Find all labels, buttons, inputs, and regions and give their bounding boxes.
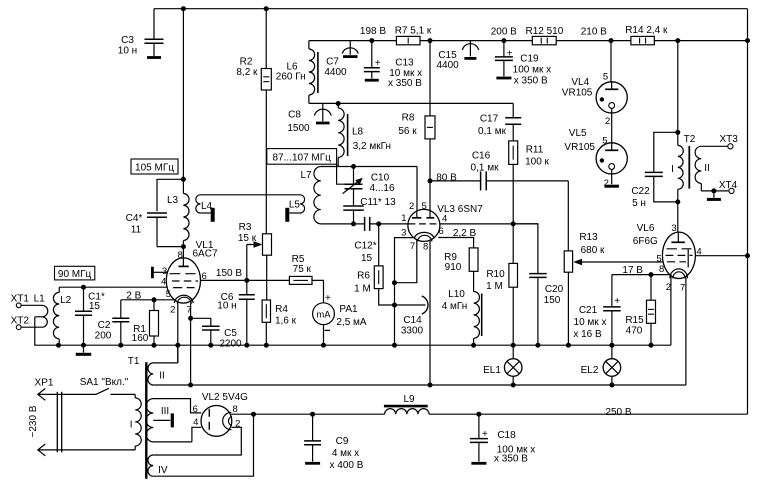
svg-text:VR105: VR105	[562, 88, 593, 99]
svg-text:C7: C7	[326, 57, 339, 68]
svg-text:1,6 к: 1,6 к	[275, 315, 297, 326]
svg-text:6AC7: 6AC7	[192, 248, 217, 259]
svg-text:15 к: 15 к	[238, 233, 257, 244]
svg-text:3: 3	[671, 223, 676, 234]
svg-text:4 мГн: 4 мГн	[442, 301, 468, 312]
svg-text:R8: R8	[402, 113, 415, 124]
svg-text:250 В: 250 В	[605, 407, 631, 418]
svg-text:III: III	[161, 406, 169, 417]
svg-text:L2: L2	[60, 295, 72, 306]
svg-text:90 МГц: 90 МГц	[58, 269, 92, 280]
svg-text:R4: R4	[275, 304, 288, 315]
svg-text:VL4: VL4	[571, 77, 589, 88]
svg-text:VL2 5V4G: VL2 5V4G	[202, 392, 248, 403]
svg-text:2: 2	[409, 201, 414, 212]
svg-text:R14 2,4 к: R14 2,4 к	[625, 25, 668, 36]
svg-text:T1: T1	[128, 356, 140, 367]
svg-text:2200: 2200	[219, 338, 242, 349]
svg-text:C17: C17	[480, 114, 499, 125]
svg-text:II: II	[159, 370, 165, 381]
svg-text:910: 910	[445, 262, 462, 273]
svg-text:5: 5	[166, 289, 171, 300]
svg-text:L3: L3	[167, 195, 179, 206]
svg-text:C3: C3	[121, 35, 134, 46]
svg-text:1500: 1500	[287, 123, 310, 134]
svg-text:C12*: C12*	[354, 241, 376, 252]
svg-text:L4: L4	[201, 201, 213, 212]
svg-text:C21: C21	[579, 305, 598, 316]
svg-text:+: +	[507, 49, 513, 60]
svg-text:4: 4	[696, 246, 701, 257]
svg-text:I: I	[130, 419, 133, 430]
svg-text:10 н: 10 н	[217, 300, 236, 311]
svg-text:C14: C14	[403, 315, 422, 326]
svg-text:x 350 В: x 350 В	[514, 76, 548, 87]
svg-text:8,2 к: 8,2 к	[236, 67, 258, 78]
svg-text:5: 5	[602, 136, 607, 147]
svg-text:11: 11	[131, 224, 142, 235]
svg-text:XP1: XP1	[35, 377, 54, 388]
svg-text:SA1 "Вкл.": SA1 "Вкл."	[80, 377, 129, 388]
svg-text:C11* 13: C11* 13	[360, 197, 396, 208]
svg-text:160: 160	[132, 333, 149, 344]
svg-text:2: 2	[605, 116, 610, 127]
svg-text:C13: C13	[395, 58, 414, 69]
svg-text:C20: C20	[545, 284, 564, 295]
svg-text:+: +	[614, 296, 620, 307]
svg-text:4 мк х: 4 мк х	[332, 448, 359, 459]
svg-text:II: II	[704, 163, 710, 174]
svg-text:L1: L1	[34, 293, 46, 304]
svg-text:200: 200	[95, 330, 112, 341]
svg-text:2: 2	[666, 282, 671, 293]
svg-text:PA1: PA1	[339, 304, 358, 315]
svg-text:56 к: 56 к	[398, 126, 417, 137]
svg-text:8: 8	[423, 242, 428, 253]
svg-text:15: 15	[361, 253, 373, 264]
svg-text:5: 5	[603, 72, 608, 83]
svg-text:8: 8	[659, 264, 664, 275]
svg-text:0,1 мк: 0,1 мк	[478, 126, 507, 137]
svg-text:8: 8	[233, 404, 238, 415]
svg-text:+: +	[375, 58, 381, 69]
svg-text:C19: C19	[520, 54, 539, 65]
svg-text:8: 8	[178, 250, 183, 261]
svg-text:4: 4	[442, 213, 447, 224]
svg-text:100 мк х: 100 мк х	[513, 65, 552, 76]
svg-text:105 МГц: 105 МГц	[135, 163, 174, 174]
svg-text:150: 150	[544, 295, 561, 306]
svg-text:C8: C8	[288, 110, 301, 121]
svg-text:L8: L8	[352, 127, 364, 138]
svg-text:C5: C5	[224, 328, 237, 339]
svg-text:6: 6	[439, 226, 444, 237]
svg-text:5: 5	[656, 253, 661, 264]
svg-text:1 М: 1 М	[486, 281, 503, 292]
svg-text:6F6G: 6F6G	[633, 236, 658, 247]
svg-text:7: 7	[187, 304, 192, 315]
svg-text:C22: C22	[631, 186, 650, 197]
svg-text:3: 3	[162, 266, 167, 277]
svg-text:XT1: XT1	[11, 293, 30, 304]
svg-text:R10: R10	[486, 269, 505, 280]
svg-text:T2: T2	[684, 134, 696, 145]
svg-text:5: 5	[422, 201, 427, 212]
svg-text:L10: L10	[448, 289, 465, 300]
svg-text:XT2: XT2	[11, 315, 30, 326]
svg-text:680 к: 680 к	[581, 245, 605, 256]
svg-text:x 350 В: x 350 В	[494, 453, 528, 464]
svg-text:4400: 4400	[324, 67, 347, 78]
svg-text:80 В: 80 В	[436, 172, 457, 183]
svg-text:2,2 В: 2,2 В	[453, 228, 477, 239]
svg-text:17 В: 17 В	[622, 265, 643, 276]
svg-text:10 н: 10 н	[118, 46, 137, 57]
svg-text:2: 2	[170, 304, 175, 315]
svg-text:2 В: 2 В	[126, 290, 141, 301]
svg-text:~230 В: ~230 В	[28, 405, 39, 437]
svg-text:XT3: XT3	[720, 134, 739, 145]
svg-text:100 к: 100 к	[525, 157, 549, 168]
svg-text:R6: R6	[357, 271, 370, 282]
svg-text:x 400 В: x 400 В	[330, 460, 364, 471]
svg-text:L5: L5	[289, 199, 301, 210]
svg-text:3: 3	[401, 227, 406, 238]
svg-text:4400: 4400	[436, 60, 459, 71]
svg-text:0,1 мк: 0,1 мк	[471, 163, 500, 174]
svg-text:IV: IV	[158, 465, 168, 476]
svg-text:mA: mA	[316, 309, 331, 320]
svg-text:3,2 мкГн: 3,2 мкГн	[353, 141, 391, 152]
svg-text:1: 1	[401, 213, 406, 224]
svg-text:x 350 В: x 350 В	[388, 78, 422, 89]
svg-text:198 В: 198 В	[360, 26, 386, 37]
svg-text:R13: R13	[579, 232, 598, 243]
svg-text:L7: L7	[300, 170, 312, 181]
svg-text:200 В: 200 В	[491, 27, 517, 38]
svg-text:VL6: VL6	[637, 223, 655, 234]
svg-text:6: 6	[193, 404, 198, 415]
svg-text:1 М: 1 М	[354, 284, 371, 295]
svg-text:4...16: 4...16	[369, 183, 394, 194]
svg-text:10 мк х: 10 мк х	[574, 317, 607, 328]
svg-text:EL1: EL1	[483, 365, 501, 376]
svg-text:75 к: 75 к	[293, 264, 312, 275]
svg-text:I: I	[671, 164, 674, 175]
svg-text:7: 7	[680, 282, 685, 293]
svg-text:210 В: 210 В	[581, 27, 607, 38]
svg-text:x 16 В: x 16 В	[573, 329, 602, 340]
svg-text:R11: R11	[526, 145, 544, 156]
svg-text:L9: L9	[403, 394, 415, 405]
svg-text:15: 15	[89, 301, 101, 312]
svg-text:+: +	[482, 429, 488, 440]
svg-text:C18: C18	[497, 430, 516, 441]
svg-text:VR105: VR105	[564, 142, 595, 153]
svg-text:7: 7	[410, 241, 415, 252]
svg-text:3300: 3300	[401, 325, 424, 336]
svg-text:C16: C16	[472, 151, 491, 162]
svg-text:5 н: 5 н	[632, 198, 646, 209]
svg-text:R3: R3	[239, 222, 252, 233]
svg-text:4: 4	[161, 276, 166, 287]
svg-text:2,5 мА: 2,5 мА	[336, 317, 367, 328]
svg-text:260 Гн: 260 Гн	[276, 72, 306, 83]
svg-text:EL2: EL2	[581, 365, 599, 376]
svg-text:87...107 МГц: 87...107 МГц	[272, 153, 331, 164]
svg-text:R2: R2	[240, 57, 253, 68]
svg-text:4: 4	[193, 417, 198, 428]
svg-text:XT4: XT4	[719, 180, 738, 191]
svg-text:470: 470	[626, 325, 643, 336]
svg-text:VL5: VL5	[569, 128, 587, 139]
svg-text:6: 6	[202, 271, 207, 282]
svg-text:R7 5,1 к: R7 5,1 к	[395, 26, 432, 37]
svg-text:R12 510: R12 510	[525, 26, 563, 37]
svg-text:150 В: 150 В	[216, 268, 242, 279]
svg-text:R15: R15	[625, 315, 644, 326]
svg-text:C10: C10	[371, 173, 390, 184]
svg-text:2: 2	[235, 418, 240, 429]
svg-text:C4*: C4*	[126, 213, 143, 224]
svg-text:C9: C9	[336, 436, 349, 447]
svg-text:2: 2	[604, 178, 609, 189]
svg-text:+: +	[325, 293, 331, 304]
